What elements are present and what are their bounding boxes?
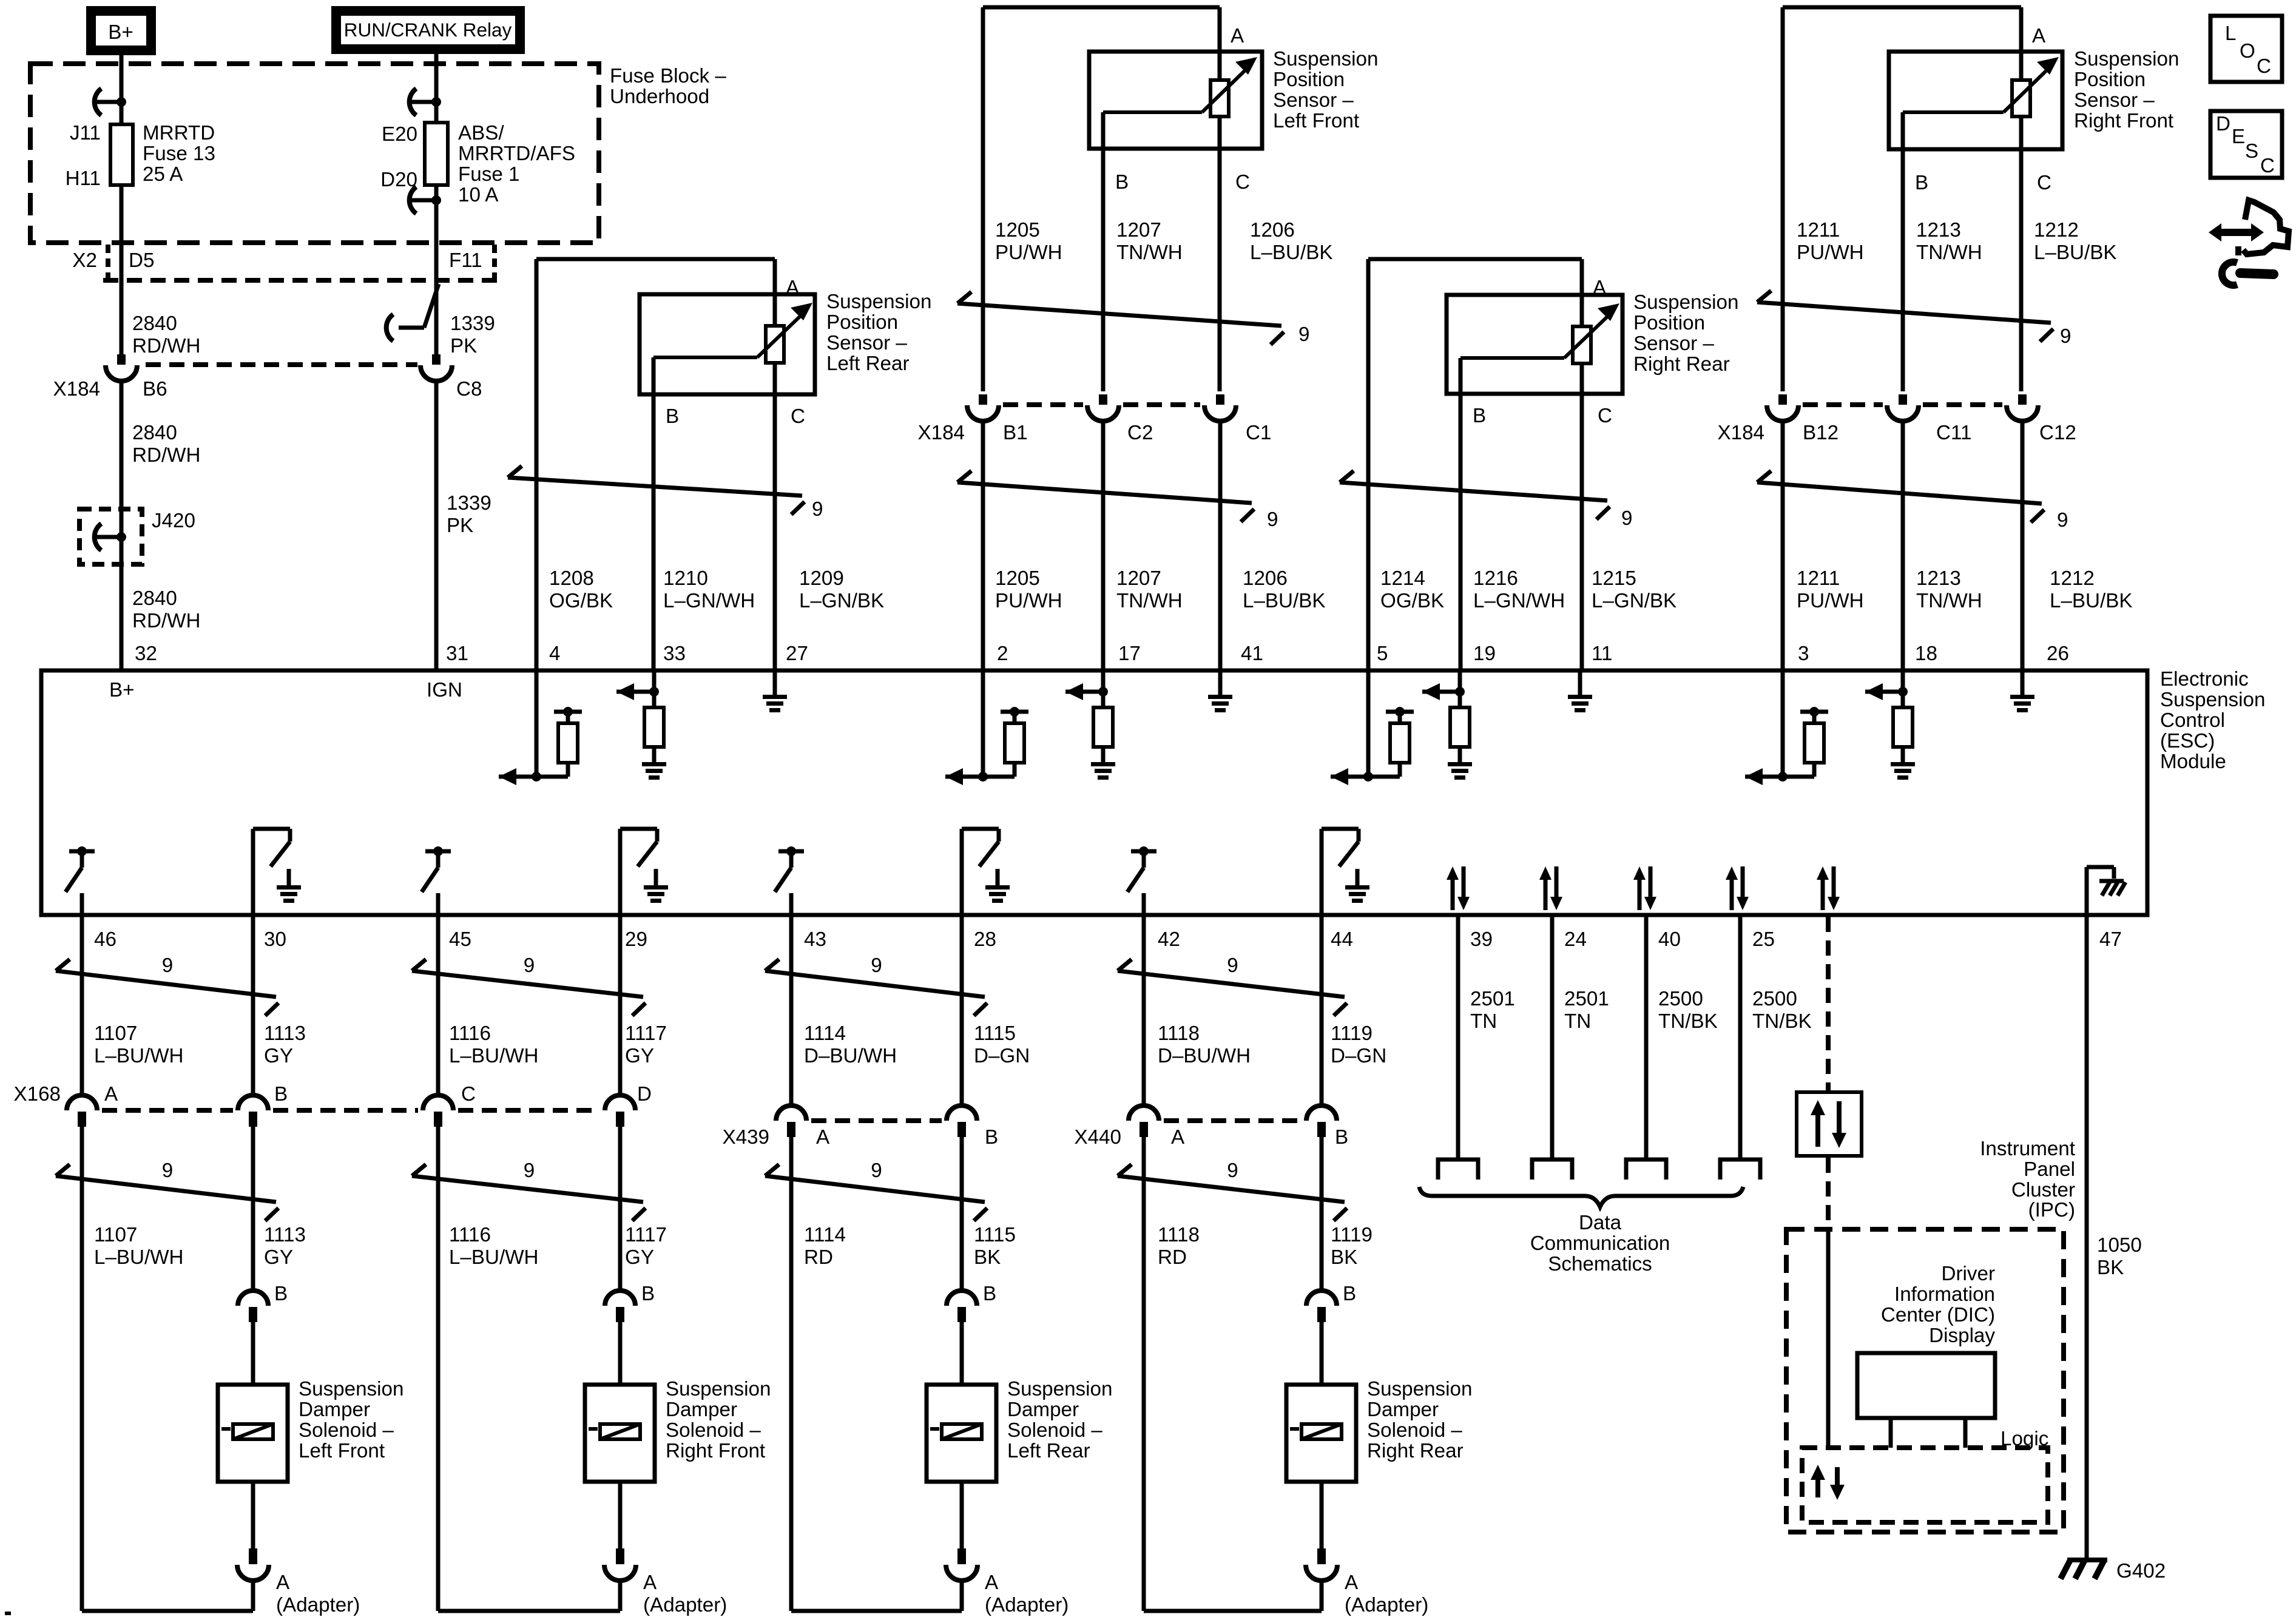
svg-text:1118: 1118 (1158, 1224, 1200, 1246)
svg-text:X184: X184 (1717, 422, 1764, 444)
svg-text:L–BU/BK: L–BU/BK (2034, 241, 2117, 264)
svg-text:PK: PK (447, 515, 473, 537)
svg-text:Fuse 13: Fuse 13 (143, 143, 215, 165)
svg-text:B: B (983, 1283, 996, 1305)
svg-text:RUN/CRANK Relay: RUN/CRANK Relay (344, 19, 512, 41)
svg-text:Solenoid –: Solenoid – (1367, 1419, 1462, 1442)
svg-text:2840: 2840 (132, 422, 177, 444)
svg-text:B1: B1 (1003, 422, 1028, 444)
svg-text:1116: 1116 (449, 1224, 491, 1246)
svg-text:B+: B+ (109, 679, 135, 701)
svg-text:GY: GY (264, 1045, 293, 1067)
svg-text:PK: PK (450, 335, 477, 357)
svg-text:Damper: Damper (299, 1399, 370, 1421)
svg-text:A: A (643, 1571, 657, 1594)
svg-text:11: 11 (1592, 643, 1612, 665)
svg-text:19: 19 (1473, 643, 1496, 665)
svg-text:E20: E20 (382, 123, 417, 146)
svg-text:1115: 1115 (974, 1224, 1016, 1246)
svg-text:L–BU/WH: L–BU/WH (449, 1045, 539, 1067)
svg-text:39: 39 (1470, 928, 1493, 951)
svg-text:C: C (461, 1083, 476, 1106)
svg-text:C2: C2 (1127, 422, 1153, 444)
svg-text:Module: Module (2160, 751, 2226, 773)
svg-text:Left Front: Left Front (299, 1440, 385, 1462)
svg-text:E: E (2232, 126, 2245, 148)
svg-text:25 A: 25 A (143, 163, 183, 186)
svg-text:G402: G402 (2116, 1560, 2166, 1582)
svg-text:1114: 1114 (804, 1224, 846, 1246)
svg-text:30: 30 (264, 928, 286, 951)
svg-text:1211: 1211 (1797, 567, 1840, 590)
svg-text:BK: BK (1331, 1246, 1357, 1269)
svg-text:Instrument: Instrument (1980, 1138, 2075, 1160)
svg-text:18: 18 (1915, 643, 1937, 665)
svg-text:L–BU/WH: L–BU/WH (94, 1246, 184, 1269)
svg-text:D–GN: D–GN (974, 1045, 1030, 1067)
svg-text:27: 27 (786, 643, 808, 665)
svg-text:S: S (2245, 140, 2258, 163)
svg-text:C: C (791, 405, 805, 428)
svg-text:Sensor –: Sensor – (1273, 89, 1354, 112)
svg-text:Solenoid –: Solenoid – (1007, 1419, 1102, 1442)
svg-text:B: B (1343, 1283, 1356, 1305)
svg-text:B: B (274, 1083, 288, 1106)
svg-text:2500: 2500 (1658, 988, 1703, 1010)
svg-text:RD: RD (804, 1246, 833, 1269)
svg-text:TN/BK: TN/BK (1752, 1010, 1812, 1033)
svg-text:1114: 1114 (804, 1022, 846, 1045)
svg-text:9: 9 (524, 954, 535, 977)
svg-text:Suspension: Suspension (1007, 1378, 1112, 1400)
svg-text:17: 17 (1118, 643, 1141, 665)
svg-text:TN/WH: TN/WH (1116, 241, 1183, 264)
svg-text:1211: 1211 (1797, 219, 1840, 241)
svg-text:9: 9 (2057, 509, 2068, 532)
svg-text:1339: 1339 (450, 312, 495, 335)
svg-text:10 A: 10 A (458, 184, 499, 206)
svg-text:1119: 1119 (1331, 1224, 1373, 1246)
svg-text:2840: 2840 (132, 312, 177, 335)
svg-text:B6: B6 (143, 378, 167, 400)
svg-text:IGN: IGN (427, 679, 462, 701)
svg-text:1214: 1214 (1380, 567, 1425, 590)
svg-text:C1: C1 (1246, 422, 1271, 444)
svg-text:Suspension: Suspension (1633, 291, 1738, 314)
svg-text:PU/WH: PU/WH (995, 241, 1062, 264)
svg-text:9: 9 (524, 1160, 535, 1182)
svg-text:RD/WH: RD/WH (132, 610, 200, 632)
svg-text:D5: D5 (129, 249, 154, 272)
svg-text:O: O (2240, 40, 2255, 62)
svg-text:Information: Information (1894, 1283, 1995, 1306)
svg-text:1210: 1210 (663, 567, 708, 590)
svg-text:43: 43 (804, 928, 826, 951)
svg-text:(Adapter): (Adapter) (1345, 1594, 1428, 1616)
svg-text:C12: C12 (2039, 422, 2076, 444)
svg-text:F11: F11 (449, 249, 482, 272)
svg-text:PU/WH: PU/WH (1797, 590, 1864, 612)
svg-text:TN/WH: TN/WH (1916, 590, 1982, 612)
svg-text:1206: 1206 (1250, 219, 1295, 241)
svg-text:1213: 1213 (1916, 219, 1961, 241)
svg-text:42: 42 (1158, 928, 1180, 951)
svg-text:2501: 2501 (1564, 988, 1609, 1010)
svg-text:B: B (1115, 171, 1129, 194)
svg-text:5: 5 (1377, 643, 1388, 665)
svg-text:L–BU/WH: L–BU/WH (449, 1246, 539, 1269)
svg-text:1119: 1119 (1331, 1022, 1373, 1045)
svg-text:PU/WH: PU/WH (1797, 241, 1864, 264)
svg-text:1209: 1209 (799, 567, 844, 590)
svg-text:9: 9 (1621, 507, 1632, 530)
svg-text:C: C (2257, 55, 2271, 78)
svg-text:1213: 1213 (1916, 567, 1961, 590)
svg-text:BK: BK (2097, 1257, 2124, 1279)
svg-text:4: 4 (549, 643, 560, 665)
svg-text:Suspension: Suspension (2074, 48, 2179, 70)
svg-text:1207: 1207 (1116, 567, 1161, 590)
svg-text:9: 9 (1298, 323, 1309, 346)
svg-text:Position: Position (1273, 69, 1345, 91)
svg-text:X168: X168 (13, 1083, 61, 1106)
svg-text:D–BU/WH: D–BU/WH (804, 1045, 897, 1067)
svg-text:28: 28 (974, 928, 996, 951)
svg-text:1107: 1107 (94, 1224, 137, 1246)
svg-text:B: B (1473, 405, 1486, 427)
svg-text:X440: X440 (1074, 1126, 1121, 1149)
svg-text:C: C (2037, 172, 2051, 194)
svg-text:31: 31 (446, 643, 468, 665)
svg-text:C8: C8 (456, 378, 482, 400)
svg-text:A: A (104, 1083, 118, 1106)
svg-text:Left Rear: Left Rear (1007, 1440, 1090, 1462)
svg-text:Right Rear: Right Rear (1633, 353, 1730, 376)
svg-text:TN: TN (1470, 1010, 1497, 1033)
svg-text:Panel: Panel (2024, 1158, 2075, 1181)
svg-text:Solenoid –: Solenoid – (666, 1419, 761, 1442)
svg-text:1107: 1107 (94, 1022, 137, 1045)
svg-text:Left Rear: Left Rear (826, 353, 910, 375)
svg-text:B: B (641, 1283, 655, 1305)
svg-text:9: 9 (1267, 508, 1278, 531)
svg-text:RD: RD (1158, 1246, 1187, 1269)
svg-text:L–GN/BK: L–GN/BK (1592, 590, 1676, 612)
svg-text:1208: 1208 (549, 567, 594, 590)
svg-text:25: 25 (1752, 928, 1775, 951)
svg-text:9: 9 (1227, 954, 1238, 977)
svg-text:BK: BK (974, 1246, 1001, 1269)
svg-text:L–GN/WH: L–GN/WH (1473, 590, 1565, 612)
svg-text:D: D (637, 1083, 652, 1106)
svg-text:B12: B12 (1803, 422, 1838, 444)
svg-text:Sensor –: Sensor – (826, 332, 907, 354)
svg-text:9: 9 (2060, 325, 2071, 348)
svg-text:Right Rear: Right Rear (1367, 1440, 1464, 1462)
svg-text:44: 44 (1331, 928, 1353, 951)
svg-text:(Adapter): (Adapter) (276, 1594, 360, 1616)
svg-text:C: C (1598, 405, 1612, 427)
svg-text:MRRTD: MRRTD (143, 122, 215, 144)
svg-text:29: 29 (625, 928, 647, 951)
svg-text:3: 3 (1798, 643, 1809, 665)
svg-text:X439: X439 (722, 1126, 769, 1149)
svg-text:1050: 1050 (2097, 1234, 2142, 1257)
svg-text:TN/WH: TN/WH (1916, 241, 1982, 264)
svg-text:Display: Display (1929, 1325, 1995, 1347)
svg-text:L–BU/BK: L–BU/BK (1243, 590, 1326, 612)
svg-text:1207: 1207 (1116, 219, 1161, 241)
svg-text:32: 32 (135, 643, 157, 665)
svg-text:A: A (2032, 25, 2046, 47)
svg-text:Data: Data (1579, 1212, 1622, 1234)
svg-text:L–BU/BK: L–BU/BK (1250, 241, 1333, 264)
svg-text:C: C (2260, 155, 2275, 177)
svg-text:9: 9 (871, 1160, 882, 1182)
svg-text:Suspension: Suspension (299, 1378, 403, 1400)
svg-text:Damper: Damper (1367, 1399, 1439, 1421)
svg-text:GY: GY (625, 1246, 654, 1269)
svg-text:B: B (985, 1126, 998, 1149)
svg-text:A: A (1231, 25, 1244, 47)
svg-text:L–GN/BK: L–GN/BK (799, 590, 884, 612)
svg-text:Communication: Communication (1530, 1232, 1670, 1255)
svg-text:D–BU/WH: D–BU/WH (1158, 1045, 1251, 1067)
svg-text:2840: 2840 (132, 587, 177, 610)
svg-text:9: 9 (871, 954, 882, 977)
svg-text:Fuse Block –: Fuse Block – (610, 65, 726, 87)
svg-text:GY: GY (264, 1246, 293, 1269)
svg-text:1117: 1117 (625, 1022, 667, 1045)
svg-text:45: 45 (449, 928, 471, 951)
svg-text:A: A (1593, 277, 1607, 299)
svg-text:Left Front: Left Front (1273, 110, 1359, 132)
svg-text:Damper: Damper (1007, 1399, 1079, 1421)
svg-text:Logic: Logic (2001, 1428, 2048, 1450)
svg-text:9: 9 (812, 498, 823, 521)
svg-text:B: B (1915, 172, 1928, 194)
svg-text:1339: 1339 (447, 492, 491, 515)
svg-text:L–GN/WH: L–GN/WH (663, 590, 755, 612)
svg-text:Suspension: Suspension (666, 1378, 771, 1400)
svg-text:41: 41 (1241, 643, 1263, 665)
svg-text:A: A (1171, 1126, 1185, 1149)
svg-text:D20: D20 (380, 169, 417, 191)
svg-text:(Adapter): (Adapter) (985, 1594, 1069, 1616)
svg-text:B: B (666, 405, 679, 428)
svg-text:33: 33 (663, 643, 686, 665)
svg-text:1206: 1206 (1243, 567, 1288, 590)
svg-text:A: A (816, 1126, 830, 1149)
svg-text:L: L (2225, 22, 2236, 45)
svg-text:Suspension: Suspension (1273, 48, 1378, 70)
svg-text:2: 2 (997, 643, 1008, 665)
svg-text:Underhood: Underhood (610, 86, 709, 108)
svg-text:L–BU/WH: L–BU/WH (94, 1045, 184, 1067)
svg-text:1212: 1212 (2050, 567, 2095, 590)
svg-text:1113: 1113 (264, 1022, 306, 1045)
svg-text:A: A (1345, 1571, 1359, 1594)
svg-text:Right Front: Right Front (666, 1440, 765, 1462)
svg-text:Driver: Driver (1942, 1263, 1996, 1285)
svg-text:B: B (1335, 1126, 1348, 1149)
svg-text:Electronic: Electronic (2160, 668, 2249, 690)
svg-text:2500: 2500 (1752, 988, 1797, 1010)
svg-text:24: 24 (1564, 928, 1587, 951)
svg-text:X184: X184 (53, 378, 100, 400)
svg-text:1118: 1118 (1158, 1022, 1200, 1045)
svg-text:J420: J420 (152, 510, 195, 532)
svg-text:C11: C11 (1936, 422, 1971, 444)
svg-text:1115: 1115 (974, 1022, 1016, 1045)
svg-text:(IPC): (IPC) (2028, 1199, 2075, 1221)
svg-text:B: B (274, 1283, 288, 1305)
svg-text:47: 47 (2099, 928, 2122, 951)
svg-text:9: 9 (162, 1160, 173, 1182)
svg-text:MRRTD/AFS: MRRTD/AFS (458, 143, 575, 165)
svg-text:1205: 1205 (995, 219, 1040, 241)
svg-text:RD/WH: RD/WH (132, 444, 200, 467)
svg-text:(ESC): (ESC) (2160, 730, 2215, 752)
svg-text:(Adapter): (Adapter) (643, 1594, 727, 1616)
svg-text:1205: 1205 (995, 567, 1040, 590)
svg-text:J11: J11 (70, 122, 101, 144)
svg-text:A: A (786, 277, 800, 299)
svg-text:TN/BK: TN/BK (1658, 1010, 1718, 1033)
svg-text:Position: Position (826, 311, 898, 334)
svg-text:9: 9 (1227, 1160, 1238, 1182)
svg-text:OG/BK: OG/BK (1380, 590, 1444, 612)
svg-text:Control: Control (2160, 709, 2225, 732)
svg-text:ABS/: ABS/ (458, 122, 504, 144)
svg-text:GY: GY (625, 1045, 654, 1067)
svg-text:X184: X184 (917, 422, 965, 444)
svg-text:Sensor –: Sensor – (1633, 333, 1714, 355)
svg-text:9: 9 (162, 954, 173, 977)
svg-text:RD/WH: RD/WH (132, 335, 200, 357)
svg-text:Right Front: Right Front (2074, 110, 2173, 132)
svg-text:1116: 1116 (449, 1022, 491, 1045)
svg-text:40: 40 (1658, 928, 1681, 951)
svg-text:46: 46 (94, 928, 116, 951)
svg-text:Suspension: Suspension (2160, 689, 2265, 711)
svg-text:TN: TN (1564, 1010, 1591, 1033)
svg-text:Center (DIC): Center (DIC) (1881, 1304, 1995, 1326)
svg-text:A: A (276, 1571, 290, 1594)
svg-text:Suspension: Suspension (1367, 1378, 1472, 1400)
svg-text:D–GN: D–GN (1331, 1045, 1386, 1067)
svg-text:Position: Position (2074, 69, 2146, 91)
svg-text:B+: B+ (108, 21, 133, 44)
svg-text:D: D (2216, 113, 2230, 135)
svg-text:1215: 1215 (1592, 567, 1636, 590)
svg-text:Schematics: Schematics (1548, 1253, 1652, 1275)
svg-text:1117: 1117 (625, 1224, 667, 1246)
svg-text:A: A (985, 1571, 999, 1594)
svg-text:PU/WH: PU/WH (995, 590, 1062, 612)
svg-text:Damper: Damper (666, 1399, 737, 1421)
svg-text:H11: H11 (66, 167, 101, 190)
svg-text:Cluster: Cluster (2011, 1179, 2075, 1201)
svg-text:26: 26 (2047, 643, 2069, 665)
svg-text:1113: 1113 (264, 1224, 306, 1246)
svg-text:Fuse 1: Fuse 1 (458, 163, 519, 186)
svg-text:1216: 1216 (1473, 567, 1518, 590)
svg-text:TN/WH: TN/WH (1116, 590, 1183, 612)
svg-text:L–BU/BK: L–BU/BK (2050, 590, 2133, 612)
svg-text:Solenoid –: Solenoid – (299, 1419, 394, 1442)
svg-text:C: C (1235, 171, 1250, 194)
svg-text:X2: X2 (72, 249, 97, 272)
svg-text:Sensor –: Sensor – (2074, 89, 2155, 112)
svg-text:Position: Position (1633, 312, 1705, 334)
svg-text:OG/BK: OG/BK (549, 590, 613, 612)
svg-text:Suspension: Suspension (826, 291, 931, 313)
svg-text:2501: 2501 (1470, 988, 1515, 1010)
svg-text:1212: 1212 (2034, 219, 2079, 241)
